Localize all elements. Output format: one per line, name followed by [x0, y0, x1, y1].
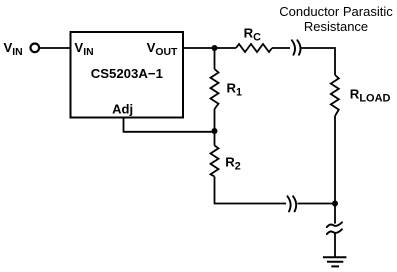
wire Adj pin to junction — [124, 118, 215, 132]
wire break above ground (vertical) — [327, 222, 342, 227]
svg-text:CS5203A−1: CS5203A−1 — [91, 66, 163, 81]
resistor R2 — [211, 146, 219, 177]
wire junction down to ground break — [334, 204, 336, 224]
wire junction to R2 — [214, 131, 216, 146]
wire junction down to R1 — [214, 48, 216, 69]
wire to ground — [334, 234, 336, 258]
node junction Adj/R1/R2 — [212, 128, 218, 134]
ground — [323, 256, 347, 258]
resistor R1 — [211, 69, 219, 109]
node junction bottom — [332, 201, 338, 207]
wire R1 to adj junction — [214, 109, 216, 131]
wire R2 down and right to break — [215, 177, 287, 204]
wire RLOAD down to bottom junction — [334, 116, 336, 204]
resistor RLOAD — [331, 75, 339, 116]
wire RC to break — [272, 47, 290, 49]
wire break (conductor) on top wire — [292, 40, 295, 55]
regulator U1 CS5203A-1 box — [71, 32, 184, 118]
svg-text:Conductor Parasitic: Conductor Parasitic — [279, 4, 393, 19]
resistor RC — [236, 44, 272, 52]
wire VOUT from regulator to RC — [183, 47, 236, 49]
wire VIN terminal to regulator — [39, 47, 70, 49]
wire break to bottom junction — [298, 203, 336, 205]
wire break to right rail corner — [301, 48, 335, 75]
terminal VIN (open circle) — [31, 44, 40, 53]
node junction VOUT/R1 — [212, 45, 218, 51]
wire break on bottom wire — [287, 196, 290, 211]
svg-text:Resistance: Resistance — [304, 19, 368, 34]
svg-text:Adj: Adj — [112, 102, 133, 117]
